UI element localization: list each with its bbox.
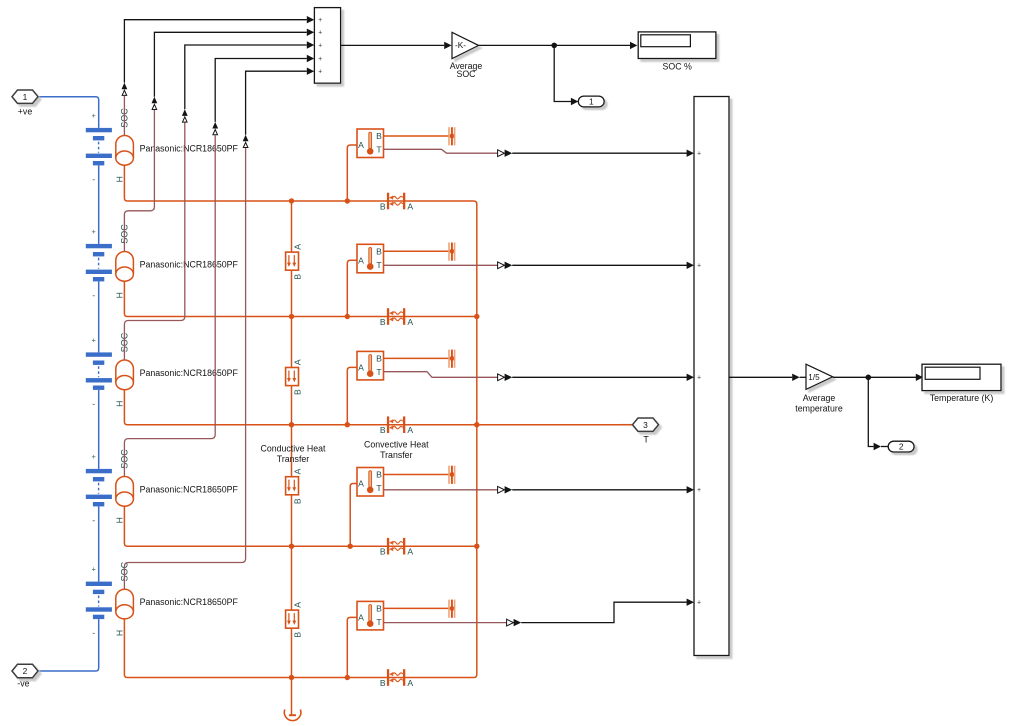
svg-text:Convective Heat: Convective Heat — [364, 440, 429, 450]
svg-text:+: + — [697, 487, 701, 494]
svg-text:A: A — [407, 678, 413, 688]
svg-text:+: + — [318, 42, 322, 49]
svg-text:1: 1 — [23, 92, 28, 102]
svg-text:B: B — [292, 274, 302, 280]
svg-text:A: A — [407, 317, 413, 327]
svg-text:Panasonic:NCR18650PF: Panasonic:NCR18650PF — [140, 259, 239, 269]
svg-text:Conductive Heat: Conductive Heat — [260, 444, 326, 454]
svg-text:H: H — [114, 630, 124, 636]
svg-text:T: T — [376, 260, 382, 270]
svg-text:-: - — [92, 175, 95, 185]
svg-text:B: B — [380, 678, 386, 688]
svg-text:Transfer: Transfer — [380, 450, 412, 460]
svg-text:B: B — [380, 547, 386, 557]
svg-text:B: B — [376, 470, 382, 480]
svg-text:B: B — [380, 201, 386, 211]
svg-text:-: - — [92, 628, 95, 638]
svg-text:3: 3 — [643, 420, 648, 430]
svg-text:B: B — [292, 389, 302, 395]
svg-text:A: A — [407, 547, 413, 557]
svg-text:SOC: SOC — [456, 69, 476, 79]
svg-text:-K-: -K- — [455, 41, 466, 50]
svg-text:Panasonic:NCR18650PF: Panasonic:NCR18650PF — [140, 484, 239, 494]
svg-text:A: A — [292, 359, 302, 365]
svg-text:+: + — [92, 336, 97, 345]
svg-text:+: + — [92, 565, 97, 574]
svg-text:H: H — [114, 176, 124, 182]
svg-text:+: + — [697, 263, 701, 270]
svg-text:B: B — [376, 131, 382, 141]
svg-text:+: + — [92, 227, 97, 236]
svg-text:+: + — [697, 151, 701, 158]
svg-text:temperature: temperature — [795, 404, 843, 414]
svg-text:-: - — [92, 516, 95, 526]
svg-text:A: A — [358, 140, 364, 150]
svg-text:+: + — [318, 17, 322, 24]
svg-text:+: + — [318, 69, 322, 76]
svg-text:2: 2 — [23, 666, 28, 676]
svg-text:+ve: +ve — [18, 107, 33, 117]
svg-text:A: A — [358, 363, 364, 373]
svg-text:+: + — [92, 111, 97, 120]
svg-text:+: + — [318, 56, 322, 63]
svg-text:A: A — [407, 202, 413, 212]
svg-text:1/5: 1/5 — [808, 373, 820, 382]
svg-text:2: 2 — [899, 442, 904, 452]
svg-text:Average: Average — [803, 393, 836, 403]
svg-text:Panasonic:NCR18650PF: Panasonic:NCR18650PF — [140, 597, 239, 607]
svg-text:B: B — [376, 604, 382, 614]
svg-text:T: T — [376, 483, 382, 493]
svg-text:A: A — [358, 613, 364, 623]
svg-text:Panasonic:NCR18650PF: Panasonic:NCR18650PF — [140, 368, 239, 378]
svg-text:T: T — [376, 145, 382, 155]
svg-text:+: + — [92, 452, 97, 461]
svg-text:B: B — [292, 498, 302, 504]
svg-text:A: A — [292, 602, 302, 608]
svg-text:+: + — [697, 375, 701, 382]
svg-text:Temperature (K): Temperature (K) — [930, 393, 994, 403]
svg-text:A: A — [292, 244, 302, 250]
svg-text:B: B — [292, 632, 302, 638]
svg-text:B: B — [380, 317, 386, 327]
svg-text:1: 1 — [589, 97, 594, 107]
svg-text:B: B — [376, 354, 382, 364]
svg-text:-: - — [92, 291, 95, 301]
svg-text:A: A — [358, 479, 364, 489]
svg-text:+: + — [697, 600, 701, 607]
svg-text:Transfer: Transfer — [277, 454, 309, 464]
svg-text:A: A — [358, 256, 364, 266]
svg-text:T: T — [643, 435, 649, 445]
svg-text:H: H — [114, 517, 124, 523]
svg-text:T: T — [376, 617, 382, 627]
svg-text:B: B — [380, 425, 386, 435]
svg-text:B: B — [376, 247, 382, 257]
svg-text:SOC %: SOC % — [663, 61, 693, 71]
svg-text:+: + — [318, 30, 322, 37]
svg-text:-ve: -ve — [17, 679, 29, 689]
svg-text:A: A — [292, 468, 302, 474]
svg-text:H: H — [114, 292, 124, 298]
svg-text:-: - — [92, 399, 95, 409]
svg-text:H: H — [114, 401, 124, 407]
svg-text:T: T — [376, 367, 382, 377]
svg-text:A: A — [407, 425, 413, 435]
